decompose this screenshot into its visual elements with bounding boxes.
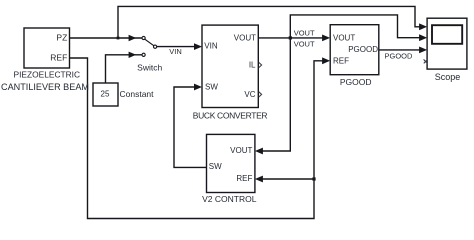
svg-text:Switch: Switch bbox=[137, 63, 162, 73]
svg-text:VOUT: VOUT bbox=[234, 34, 256, 43]
svg-text:V2 CONTROL: V2 CONTROL bbox=[202, 194, 257, 204]
svg-text:VOUT: VOUT bbox=[230, 146, 252, 155]
svg-text:VC: VC bbox=[244, 90, 255, 99]
svg-text:SW: SW bbox=[209, 162, 222, 171]
svg-text:Constant: Constant bbox=[120, 89, 155, 99]
svg-text:REF: REF bbox=[333, 57, 349, 66]
svg-text:BUCK CONVERTER: BUCK CONVERTER bbox=[193, 110, 268, 120]
svg-text:VIN: VIN bbox=[169, 47, 182, 56]
svg-text:VOUT: VOUT bbox=[294, 39, 315, 48]
svg-text:PGOOD: PGOOD bbox=[340, 77, 372, 87]
svg-text:VOUT: VOUT bbox=[294, 29, 315, 38]
svg-text:PIEZOELECTRIC: PIEZOELECTRIC bbox=[14, 70, 81, 80]
svg-text:VOUT: VOUT bbox=[333, 33, 355, 42]
svg-text:REF: REF bbox=[50, 52, 67, 62]
svg-text:PZ: PZ bbox=[56, 33, 67, 43]
svg-text:PGOOD: PGOOD bbox=[385, 51, 414, 60]
svg-text:CANTILIEVER BEAM: CANTILIEVER BEAM bbox=[1, 82, 89, 92]
svg-text:Scope: Scope bbox=[435, 72, 461, 82]
svg-text:25: 25 bbox=[101, 89, 110, 98]
svg-text:REF: REF bbox=[236, 174, 252, 183]
svg-text:VIN: VIN bbox=[204, 42, 218, 51]
svg-text:PGOOD: PGOOD bbox=[348, 45, 378, 54]
svg-text:SW: SW bbox=[205, 83, 218, 92]
svg-text:IL: IL bbox=[249, 61, 256, 70]
